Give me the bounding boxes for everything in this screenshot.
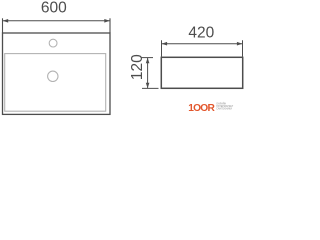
svg-text:600: 600 <box>41 0 67 17</box>
svg-text:120: 120 <box>129 54 146 80</box>
svg-text:САНТЕХНИКИ: САНТЕХНИКИ <box>216 108 232 111</box>
svg-text:1OOR: 1OOR <box>188 103 215 114</box>
svg-text:420: 420 <box>188 24 214 41</box>
